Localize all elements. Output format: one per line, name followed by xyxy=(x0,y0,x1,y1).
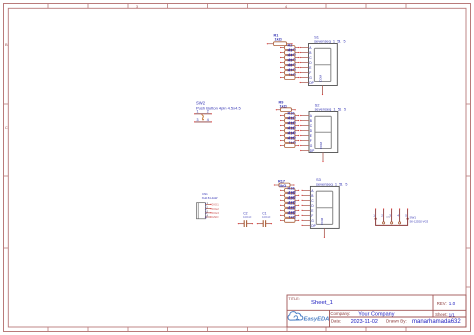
svg-text:Your Company: Your Company xyxy=(358,311,394,317)
svg-text:E: E xyxy=(310,134,313,138)
7-segment display S2 xyxy=(309,102,346,152)
svg-text:Push Button 4pin 4.5x4.5: Push Button 4pin 4.5x4.5 xyxy=(196,105,241,110)
svg-text:B: B xyxy=(5,42,8,47)
border tick marks top/bottom xyxy=(48,4,406,332)
resistor R2 xyxy=(280,44,299,52)
S3 common pin xyxy=(320,217,325,238)
svg-text:4: 4 xyxy=(397,214,399,218)
title block frame xyxy=(287,295,466,327)
svg-text:GND: GND xyxy=(212,215,220,219)
S1 pin DP xyxy=(300,81,315,85)
svg-text:A: A xyxy=(309,46,312,50)
S1 pin G xyxy=(300,76,313,80)
resistor R20 xyxy=(280,197,299,205)
svg-text:SW1: SW1 xyxy=(410,215,417,219)
7-segment display S3 xyxy=(310,177,347,228)
svg-text:5: 5 xyxy=(344,108,346,112)
resistor R10 xyxy=(280,112,299,120)
resistor R13 xyxy=(280,127,299,135)
svg-text:DP: DP xyxy=(309,81,314,85)
S3 pin G xyxy=(301,219,314,223)
svg-text:1: 1 xyxy=(373,214,375,218)
S1 pin D xyxy=(300,61,313,65)
svg-text:sevenseg_1_5: sevenseg_1_5 xyxy=(315,107,340,112)
S3 pin D xyxy=(301,204,314,208)
resistor R11 xyxy=(280,117,299,125)
CN1 pin 4 xyxy=(205,214,220,220)
resistor R14 xyxy=(280,132,299,140)
SW1 pin 1 xyxy=(375,209,377,219)
svg-text:B: B xyxy=(309,51,312,55)
svg-text:Date:: Date: xyxy=(331,319,342,324)
svg-text:manarhamada632: manarhamada632 xyxy=(412,319,461,325)
svg-text:G: G xyxy=(311,219,314,223)
S2 pin DP xyxy=(300,149,315,153)
S2 common pin xyxy=(319,142,324,163)
svg-text:F: F xyxy=(310,139,312,143)
S2 pin G xyxy=(300,144,313,148)
CN1 pin 2 xyxy=(205,205,219,211)
resistor R17 xyxy=(274,180,295,188)
svg-text:E: E xyxy=(309,66,312,70)
S2 pin D xyxy=(300,129,313,133)
svg-text:DP: DP xyxy=(310,149,315,153)
S3 pin B xyxy=(301,194,314,198)
svg-text:5: 5 xyxy=(344,40,346,44)
push button SW2 symbol xyxy=(194,110,212,123)
capacitor C1 xyxy=(257,212,272,227)
S1 pin C xyxy=(300,56,313,60)
SW1 bottom bracket xyxy=(376,219,408,226)
resistor R23 xyxy=(280,212,299,220)
svg-text:3: 3 xyxy=(197,118,199,122)
resistor R16 xyxy=(280,144,299,148)
7-segment display S1 xyxy=(309,34,346,85)
svg-text:XH2.54-4AW: XH2.54-4AW xyxy=(202,196,218,200)
svg-text:Sheet:: Sheet: xyxy=(435,312,447,317)
resistor R4 xyxy=(280,54,299,62)
S3 pin A xyxy=(301,189,314,193)
svg-text:5: 5 xyxy=(345,183,347,187)
EasyEDA logo xyxy=(288,312,303,320)
svg-text:1: 1 xyxy=(197,110,199,114)
SW1 pin 4 xyxy=(399,209,401,222)
resistor R19 xyxy=(280,192,299,200)
slide switch SW1 xyxy=(373,208,428,225)
svg-text:1/1: 1/1 xyxy=(449,312,456,317)
svg-text:A: A xyxy=(310,114,313,118)
svg-text:1kΩ: 1kΩ xyxy=(279,184,286,188)
resistor R24 xyxy=(280,219,299,223)
S2 pin F xyxy=(300,139,312,143)
svg-text:F: F xyxy=(309,71,311,75)
svg-text:2: 2 xyxy=(381,214,383,218)
svg-text:Company:: Company: xyxy=(330,311,350,316)
S3 pin C xyxy=(301,199,314,203)
svg-text:DP: DP xyxy=(311,224,316,228)
svg-text:REV:: REV: xyxy=(437,301,447,306)
CN1 pin 1 xyxy=(205,201,219,207)
SW1 pin 2 xyxy=(383,209,385,222)
svg-text:1.0: 1.0 xyxy=(449,301,456,306)
resistor R6 xyxy=(280,64,299,72)
svg-text:1kΩ: 1kΩ xyxy=(275,38,282,42)
svg-text:C: C xyxy=(310,124,313,128)
svg-text:2: 2 xyxy=(207,110,209,114)
svg-text:100nF: 100nF xyxy=(262,215,271,219)
svg-text:G: G xyxy=(309,76,312,80)
resistor R15 xyxy=(280,137,299,145)
resistor R21 xyxy=(280,202,299,210)
svg-text:D: D xyxy=(311,204,314,208)
resistor R22 xyxy=(280,207,299,215)
svg-text:2023-11-02: 2023-11-02 xyxy=(351,319,378,325)
svg-text:sevenseg_1_5: sevenseg_1_5 xyxy=(316,182,341,187)
S2 pin B xyxy=(300,119,313,123)
S2 pin C xyxy=(300,124,313,128)
S3 pin E xyxy=(301,209,314,213)
svg-text:1: 1 xyxy=(339,40,341,44)
svg-text:E: E xyxy=(311,209,314,213)
svg-text:TITLE:: TITLE: xyxy=(288,297,299,301)
SW1 pin 5 xyxy=(407,209,409,219)
CN1 pin 3 xyxy=(205,210,219,216)
svg-text:F: F xyxy=(311,214,313,218)
border tick marks left/right xyxy=(4,104,471,287)
SW2 actuator xyxy=(202,115,204,119)
connector CN1 body xyxy=(197,203,206,219)
svg-text:COM: COM xyxy=(319,142,323,150)
svg-text:4: 4 xyxy=(207,118,209,122)
svg-text:1: 1 xyxy=(339,108,341,112)
svg-text:COM: COM xyxy=(320,217,324,225)
svg-text:EasyEDA: EasyEDA xyxy=(304,316,330,322)
capacitor C2 xyxy=(238,212,253,227)
svg-text:D: D xyxy=(310,129,313,133)
svg-text:C: C xyxy=(5,125,8,130)
svg-text:G: G xyxy=(310,144,313,148)
svg-text:A: A xyxy=(311,189,314,193)
svg-text:CN1: CN1 xyxy=(202,192,208,196)
svg-text:C: C xyxy=(309,56,312,60)
svg-text:1: 1 xyxy=(341,183,343,187)
svg-text:COM: COM xyxy=(318,75,322,83)
resistor R7 xyxy=(280,69,299,77)
svg-text:sevenseg_1_5: sevenseg_1_5 xyxy=(314,39,339,44)
resistor R9 xyxy=(276,101,296,112)
svg-text:1kΩ: 1kΩ xyxy=(280,105,287,109)
svg-text:SK-12D02-VG3: SK-12D02-VG3 xyxy=(410,219,429,223)
S1 pin E xyxy=(300,66,313,70)
S2 pin E xyxy=(300,134,313,138)
S1 common pin xyxy=(318,75,323,96)
resistor R8 xyxy=(280,76,299,80)
resistor R5 xyxy=(280,59,299,67)
resistor R12 xyxy=(280,122,299,130)
S1 pin A xyxy=(300,46,313,50)
svg-text:Sheet_1: Sheet_1 xyxy=(311,300,333,306)
S3 pin F xyxy=(301,214,313,218)
S2 pin A xyxy=(300,114,313,118)
S1 pin B xyxy=(300,51,313,55)
svg-text:D: D xyxy=(309,61,312,65)
svg-text:C: C xyxy=(311,199,314,203)
svg-text:Drawn By:: Drawn By: xyxy=(386,319,407,324)
SW1 pin 3 xyxy=(391,209,393,222)
svg-text:100nF: 100nF xyxy=(243,215,252,219)
svg-text:B: B xyxy=(310,119,313,123)
resistor R3 xyxy=(280,49,299,57)
resistor R1 xyxy=(267,34,293,46)
S1 pin F xyxy=(300,71,312,75)
svg-text:B: B xyxy=(311,194,314,198)
svg-text:5: 5 xyxy=(405,214,407,218)
resistor R18 xyxy=(280,187,299,195)
svg-text:ON: ON xyxy=(386,215,390,219)
border zone labels xyxy=(5,4,288,130)
S3 pin DP xyxy=(301,224,316,228)
